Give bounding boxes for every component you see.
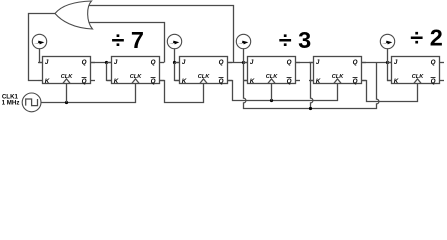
wire: J4K4 junction down, hop over bus, to bottom bus — [244, 63, 311, 109]
wire: K4 branch — [244, 80, 248, 82]
wire: junction down to K2 — [107, 63, 112, 81]
or-gate U1 — [55, 1, 93, 29]
wire: probe2 stem to J3 — [175, 49, 180, 63]
node Q1-J2K2 junction — [105, 61, 108, 64]
flip-flop U5 JK — [243, 57, 300, 85]
wire: Qbar2 down and across to CLK3 — [160, 81, 204, 103]
flip-flop U3 JK — [107, 57, 164, 85]
clock edge triangle of U2 — [63, 79, 70, 84]
clock source square wave glyph — [26, 99, 38, 106]
wire: clock bus to CLK2 — [41, 84, 136, 103]
flip-flop U2 JK — [38, 57, 95, 85]
wire: Q5 to J6 — [362, 62, 392, 64]
wire: probe1 stem to J1 — [40, 49, 43, 63]
wire: bottom bus right half, up with hop, to Q5 wire — [311, 63, 379, 109]
wire: probe4 stem — [387, 49, 389, 63]
clock edge triangle of U4 — [200, 79, 207, 84]
wire: junction down to K6 — [388, 63, 392, 81]
svg-text:1 MHz: 1 MHz — [2, 100, 20, 107]
wire: CLK1 riser — [66, 84, 68, 103]
wire: K5 branch — [311, 80, 314, 82]
node Q5-J6K6 junction — [386, 61, 389, 64]
wire: OR input 2 from Q2 — [89, 23, 165, 63]
wire: probe3 stem — [243, 49, 245, 63]
flip-flop U7 JK — [387, 57, 444, 85]
wire: OR input 1 from Q3 node — [88, 6, 234, 63]
probe P1 — [32, 34, 46, 48]
node Q3-J4K4 junction — [242, 61, 245, 64]
flip-flop U4 JK — [175, 57, 232, 85]
wire: Qbar5 across to CLK6 — [362, 81, 418, 102]
clock edge triangle of U6 — [334, 79, 341, 84]
probe P4 — [380, 34, 394, 48]
clock edge triangle of U3 — [132, 79, 139, 84]
svg-text:÷ 2: ÷ 2 — [410, 24, 443, 50]
wire: Qbar3 across to CLK4 and CLK5 — [228, 81, 338, 101]
node clock bus to CLK1 riser — [65, 101, 68, 104]
probe P3 — [236, 34, 250, 48]
wire: CLK4 riser — [271, 84, 273, 101]
probe P2 — [167, 34, 181, 48]
wire: Q1 to J2 — [91, 62, 112, 64]
node bottom bus junction — [309, 107, 312, 110]
clock source CLK1 — [22, 93, 41, 112]
node probe2-J3K3 junction — [173, 61, 176, 64]
wire: junction down to K3 — [175, 63, 180, 81]
wire: J5K5 vertical down, hop, to bottom bus — [311, 63, 313, 109]
svg-text:÷ 3: ÷ 3 — [279, 27, 312, 53]
wire: Q4 to J5 — [296, 62, 314, 64]
wire: OR output to K1 — [29, 14, 56, 81]
clock edge triangle of U5 — [268, 79, 275, 84]
wire: Q3 to J4 — [228, 62, 248, 64]
node Qbar3 bus to CLK4 — [270, 99, 273, 102]
clock edge triangle of U7 — [414, 79, 421, 84]
svg-text:÷ 7: ÷ 7 — [112, 27, 145, 53]
flip-flop U6 JK — [309, 57, 366, 85]
